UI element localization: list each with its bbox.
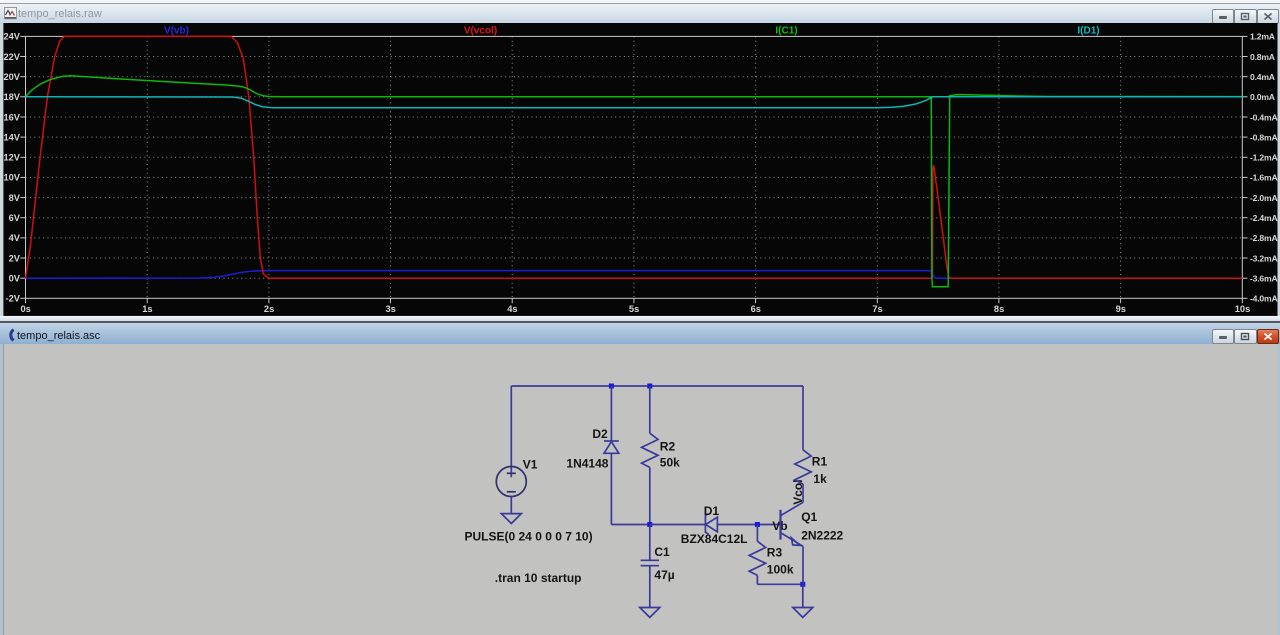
- svg-text:-1.2mA: -1.2mA: [1250, 153, 1277, 163]
- node junction C1 top: [647, 522, 652, 527]
- wire D1 right: [717, 524, 780, 526]
- svg-text:0.8mA: 0.8mA: [1250, 52, 1275, 62]
- svg-text:-2.8mA: -2.8mA: [1250, 233, 1277, 243]
- svg-text:-4.0mA: -4.0mA: [1250, 294, 1277, 304]
- wire top rail: [511, 385, 803, 387]
- svg-text:BZX84C12L: BZX84C12L: [681, 532, 748, 546]
- svg-text:.tran 10 startup: .tran 10 startup: [495, 571, 582, 585]
- wire R1 top: [802, 386, 804, 450]
- svg-text:1s: 1s: [142, 304, 152, 314]
- svg-text:3s: 3s: [386, 304, 396, 314]
- zener diode D1: [705, 514, 717, 534]
- ground C1: [640, 608, 660, 618]
- svg-text:10V: 10V: [3, 173, 20, 183]
- svg-text:5s: 5s: [629, 304, 639, 314]
- svg-text:8s: 8s: [994, 304, 1004, 314]
- svg-text:14V: 14V: [3, 132, 20, 142]
- svg-text:4V: 4V: [9, 233, 21, 243]
- svg-text:0V: 0V: [9, 274, 21, 284]
- svg-text:-1.6mA: -1.6mA: [1250, 173, 1277, 183]
- svg-text:7s: 7s: [872, 304, 882, 314]
- resistor R3: [749, 541, 765, 575]
- svg-text:-2.0mA: -2.0mA: [1250, 193, 1277, 203]
- ground V1: [501, 514, 521, 524]
- wire V1 bottom: [510, 497, 512, 514]
- wire R2 top: [649, 386, 651, 433]
- svg-text:PULSE(0 24 0 0 0 7 10): PULSE(0 24 0 0 0 7 10): [465, 529, 593, 543]
- wire ground Q1: [802, 584, 804, 607]
- svg-text:9s: 9s: [1116, 304, 1126, 314]
- svg-text:2N2222: 2N2222: [801, 529, 843, 543]
- wire R2 bottom: [649, 467, 651, 524]
- svg-text:18V: 18V: [3, 92, 20, 102]
- transistor Q1: [781, 502, 804, 546]
- svg-text:V(vb): V(vb): [164, 26, 189, 37]
- svg-text:0.4mA: 0.4mA: [1250, 72, 1275, 82]
- node junction top D2: [609, 384, 614, 389]
- svg-text:22V: 22V: [3, 52, 20, 62]
- svg-text:100k: 100k: [767, 562, 794, 576]
- svg-text:D1: D1: [704, 504, 720, 518]
- svg-text:24V: 24V: [3, 32, 20, 42]
- svg-text:Q1: Q1: [801, 510, 817, 524]
- svg-text:1k: 1k: [813, 472, 827, 486]
- svg-text:16V: 16V: [3, 112, 20, 122]
- wire R3 bottom: [756, 575, 758, 584]
- svg-text:-2V: -2V: [6, 294, 21, 304]
- svg-text:1.2mA: 1.2mA: [1250, 32, 1275, 42]
- svg-text:D2: D2: [592, 427, 608, 441]
- wire R3 top: [756, 525, 758, 542]
- svg-text:R1: R1: [812, 455, 828, 469]
- svg-text:V1: V1: [523, 457, 538, 471]
- node junction emitter: [800, 582, 805, 587]
- ground Q1: [793, 608, 813, 618]
- wire mid left: [611, 524, 649, 526]
- svg-text:V(vcol): V(vcol): [464, 26, 497, 37]
- svg-text:8V: 8V: [9, 193, 21, 203]
- capacitor C1: [641, 560, 659, 565]
- svg-text:6s: 6s: [751, 304, 761, 314]
- wire emitter: [802, 546, 804, 584]
- svg-text:-3.2mA: -3.2mA: [1250, 253, 1277, 263]
- svg-text:20V: 20V: [3, 72, 20, 82]
- wire collector: [802, 484, 804, 502]
- wire D1 left: [650, 524, 706, 526]
- wire D2 top: [610, 386, 612, 441]
- wire V1 top: [510, 386, 512, 477]
- resistor R1: [795, 450, 811, 484]
- svg-text:10s: 10s: [1235, 304, 1251, 314]
- svg-text:50k: 50k: [660, 456, 680, 470]
- svg-text:2V: 2V: [9, 253, 21, 263]
- wire C1 bottom: [649, 566, 651, 608]
- svg-text:0s: 0s: [21, 304, 31, 314]
- svg-text:R3: R3: [767, 546, 783, 560]
- wire D2 bottom: [610, 453, 612, 524]
- node junction top R2: [647, 384, 652, 389]
- svg-text:-0.4mA: -0.4mA: [1250, 112, 1277, 122]
- svg-text:-3.6mA: -3.6mA: [1250, 274, 1277, 284]
- svg-text:C1: C1: [654, 545, 670, 559]
- svg-text:-2.4mA: -2.4mA: [1250, 213, 1277, 223]
- svg-text:2s: 2s: [264, 304, 274, 314]
- voltage source V1: [496, 467, 526, 497]
- svg-text:0.0mA: 0.0mA: [1250, 92, 1275, 102]
- svg-text:47µ: 47µ: [654, 568, 674, 582]
- diode D2: [604, 441, 619, 453]
- svg-text:I(D1): I(D1): [1077, 26, 1099, 37]
- wire C1 top: [649, 525, 651, 561]
- resistor R2: [642, 433, 658, 467]
- svg-text:4s: 4s: [507, 304, 517, 314]
- svg-text:12V: 12V: [3, 153, 20, 163]
- wire emitter bottom rail: [757, 583, 802, 585]
- svg-text:6V: 6V: [9, 213, 21, 223]
- svg-text:1N4148: 1N4148: [566, 456, 608, 470]
- svg-text:-0.8mA: -0.8mA: [1250, 132, 1277, 142]
- svg-text:I(C1): I(C1): [775, 26, 797, 37]
- node junction R3 top: [755, 522, 760, 527]
- svg-text:R2: R2: [660, 439, 676, 453]
